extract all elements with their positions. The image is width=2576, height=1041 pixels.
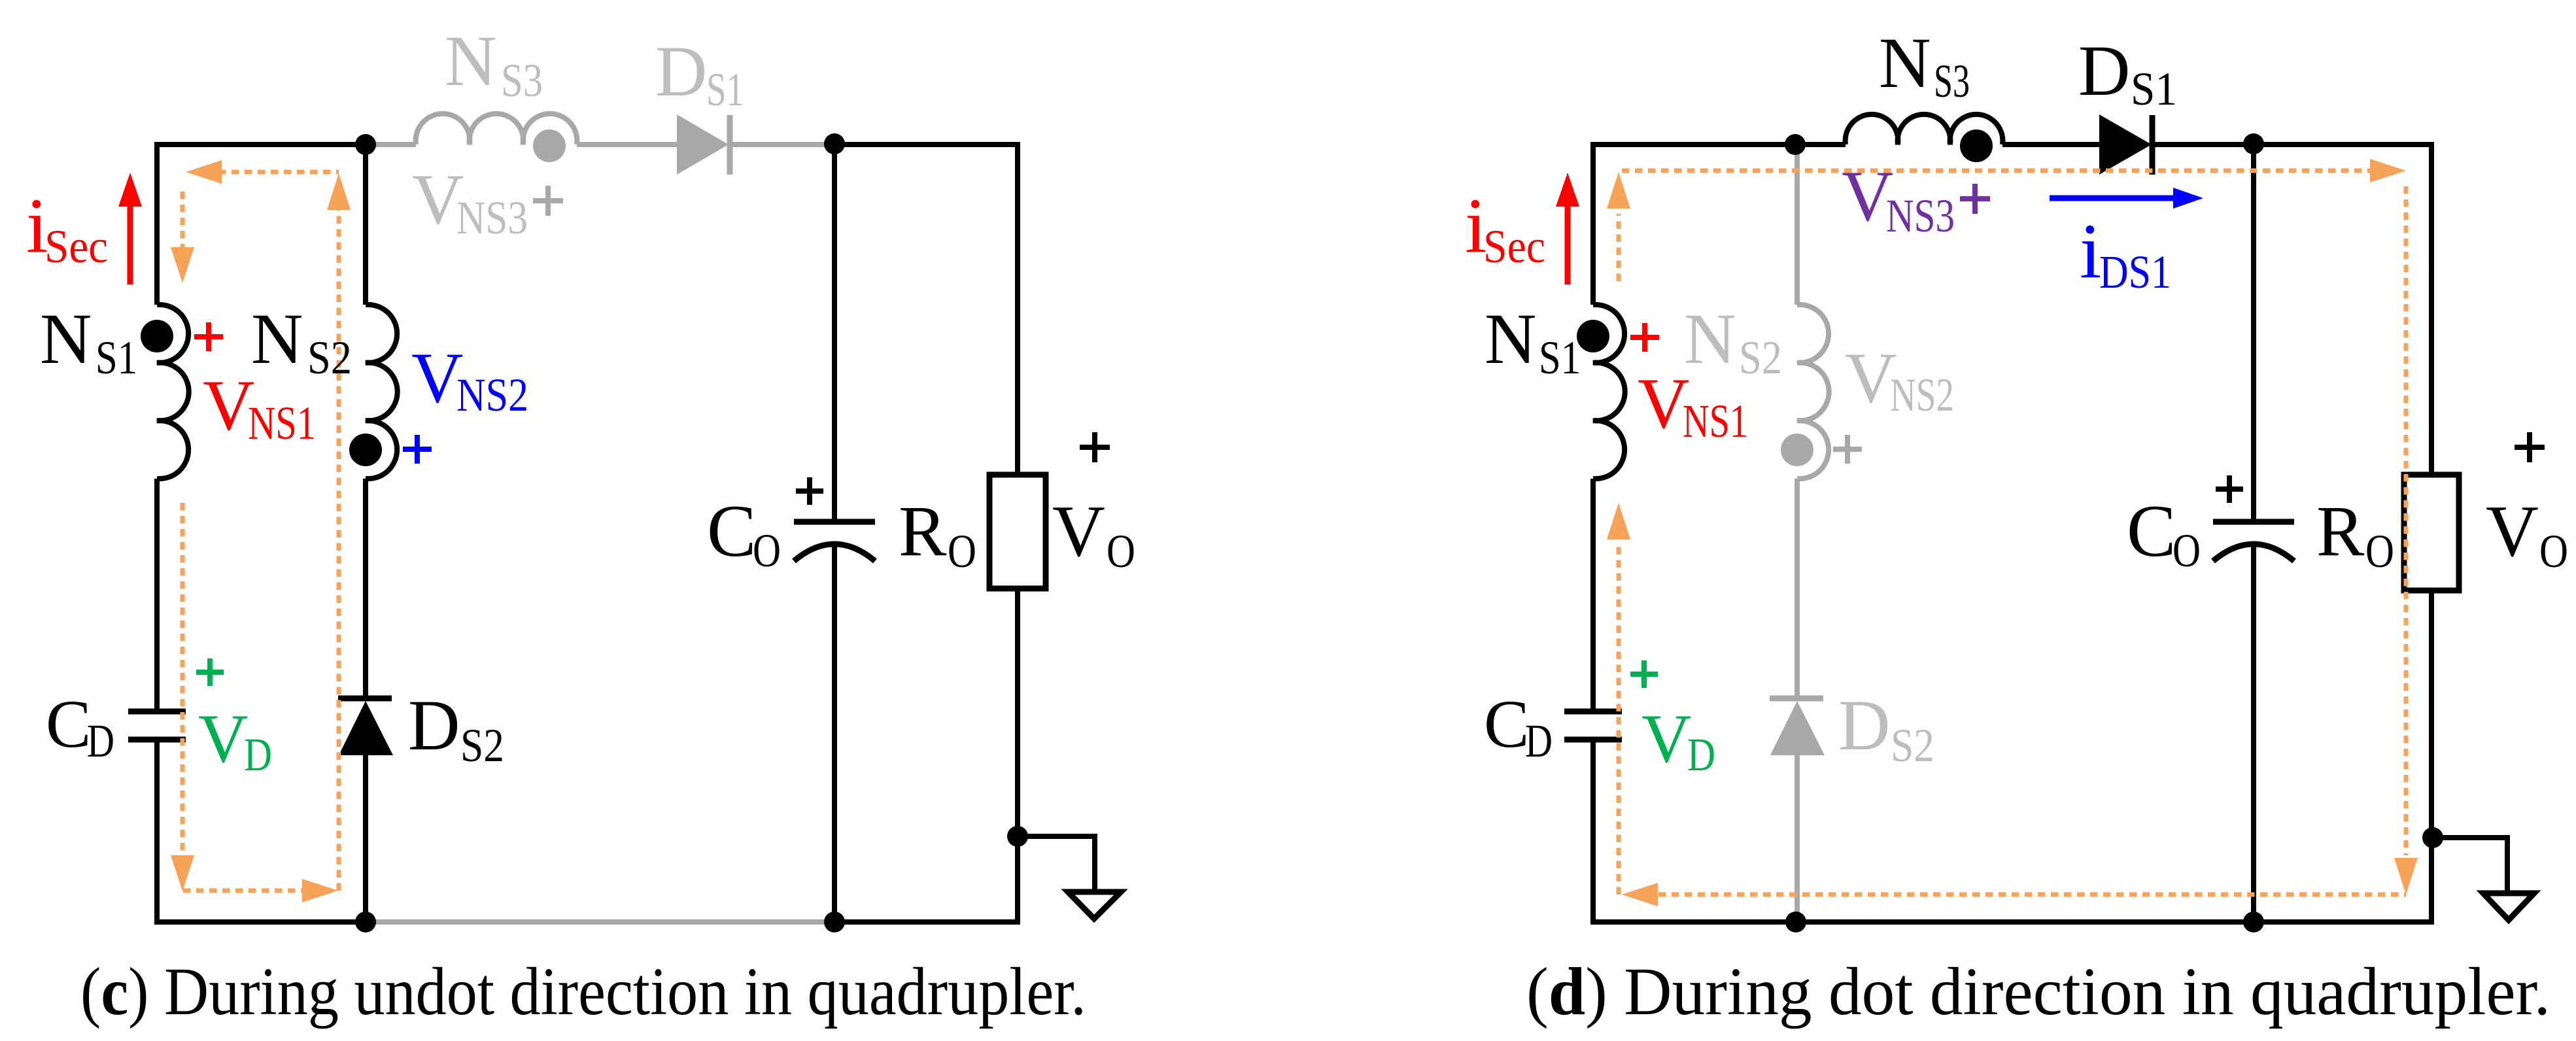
svg-text:N: N (1879, 23, 1931, 103)
svg-text:O: O (2365, 525, 2394, 577)
wire loop: left vertical upper (1617, 214, 1621, 281)
diode DS2 (338, 696, 392, 702)
wire (gray): NS3 to DS1 (577, 142, 677, 147)
svg-text:V: V (1845, 338, 1897, 418)
inductor NS2 (winding) (366, 305, 398, 479)
wire: CO branch lower (2251, 545, 2256, 922)
diode DS1 (gray) (677, 114, 729, 175)
svg-text:V: V (203, 366, 254, 445)
wire (gray): bottom between NS2 node and CO node (366, 919, 834, 925)
svg-text:D: D (2078, 31, 2130, 111)
svg-text:S3: S3 (501, 54, 543, 107)
node: DS1 output (2243, 133, 2264, 154)
svg-text:D: D (87, 715, 114, 767)
dot: NS2 polarity (349, 434, 382, 466)
capacitor CO (polarized) (794, 519, 875, 525)
wire: left branch below CD + bottom-left wire (157, 740, 366, 922)
wire loop: bottom horizontal (183, 889, 302, 893)
arrow left (loop top left) (186, 160, 222, 184)
svg-text:S1: S1 (2131, 63, 2177, 115)
svg-text:D: D (1687, 728, 1715, 781)
svg-text:S2: S2 (1739, 332, 1782, 384)
node: NS2 top (1785, 134, 1806, 155)
plus gray (NS3) (533, 186, 563, 216)
arrow up (loop right top) (327, 173, 351, 210)
node: output top (824, 133, 845, 154)
arrow up (loop left upper) (1607, 172, 1630, 209)
dot: NS1 polarity (141, 320, 173, 352)
svg-text:D: D (1838, 685, 1890, 765)
node: bottom DS2 (1785, 912, 1806, 932)
svg-text:N: N (1684, 299, 1736, 379)
resistor RO (rect) (989, 475, 1046, 589)
svg-text:D: D (244, 728, 272, 781)
svg-text:D: D (1525, 715, 1553, 767)
plus (CO) (796, 477, 823, 505)
svg-text:O: O (753, 524, 781, 577)
wire: top-left corner to NS2 node (1593, 145, 1795, 305)
svg-text:V: V (1641, 700, 1692, 777)
arrow right (loop bottom) (302, 879, 338, 902)
wire loop: right vertical (2404, 186, 2409, 855)
svg-text:O: O (2539, 525, 2568, 577)
wire loop: top horizontal (1622, 169, 2372, 173)
svg-text:C: C (46, 687, 91, 762)
svg-text:DS1: DS1 (2099, 246, 2171, 298)
svg-text:D: D (655, 31, 707, 111)
wire (gray): DS2 anode to bottom node (1795, 755, 1800, 922)
arrow iSec (red) (128, 203, 133, 284)
wire loop: left vertical lower (1617, 544, 1621, 895)
plus purple (NS3) (1960, 184, 1990, 214)
wire (gray): NS2 branch top (1795, 145, 1800, 305)
svg-text:NS3: NS3 (1886, 190, 1955, 242)
arrow left (loop bottom) (1622, 883, 1658, 906)
plus blue (NS2) (403, 435, 432, 464)
svg-text:NS3: NS3 (456, 192, 528, 244)
dot: NS1 polarity (1577, 320, 1609, 352)
plus (VO) (2515, 432, 2545, 462)
arrow down (loop left lower) (171, 855, 194, 891)
node: bottom DS2 (355, 912, 376, 932)
inductor NS3 (winding) (1846, 114, 2003, 145)
svg-text:N: N (1485, 299, 1536, 379)
current loop (orange dashed), circuit (c) (182, 172, 339, 891)
node: bottom CO (2243, 912, 2264, 932)
svg-text:(d) During dot direction in qu: (d) During dot direction in quadrupler. (1526, 954, 2550, 1029)
svg-text:N: N (251, 299, 303, 379)
wire: ground stub (1018, 836, 1095, 891)
plus gray (NS2) (1833, 435, 1862, 464)
svg-text:O: O (2172, 524, 2201, 577)
plus red (NS1) (194, 322, 223, 351)
capacitor CO (polarized) (2213, 519, 2294, 525)
wire: NS2 branch to DS2 (363, 479, 368, 698)
svg-text:V: V (1638, 364, 1689, 443)
capacitor CD (1564, 711, 1622, 740)
wire: DS1 to output node and right corner (2155, 145, 2431, 475)
wire (gray): DS1 to output node (732, 142, 825, 147)
node: RO-ground (1007, 826, 1028, 847)
wire (gray, idle): NS2 node to NS3 (366, 142, 416, 147)
plus green (VD) (1630, 660, 1658, 688)
wire: below CD + bottom wire (1593, 740, 2434, 922)
wire: NS3 to DS1 (2002, 142, 2099, 147)
svg-text:C: C (707, 490, 756, 572)
svg-text:N: N (445, 21, 496, 101)
plus (VO) (1080, 432, 1110, 462)
svg-text:NS2: NS2 (456, 369, 528, 421)
plus red (NS1) (1630, 323, 1659, 352)
inductor NS1 (winding) (157, 305, 189, 479)
svg-text:S1: S1 (706, 63, 744, 116)
svg-text:R: R (899, 491, 947, 571)
arrow iSec (red) (1565, 203, 1571, 284)
plus (CO) (2216, 475, 2243, 503)
ground (2483, 893, 2534, 920)
svg-text:i: i (2080, 207, 2101, 294)
wire loop: right vertical (337, 210, 341, 891)
svg-text:S1: S1 (95, 332, 137, 384)
node: bottom CO (824, 912, 845, 932)
arrow down (loop right) (2394, 858, 2418, 895)
svg-text:D: D (408, 685, 460, 765)
arrow right (loop top) (2370, 159, 2406, 182)
node: RO-ground (2422, 827, 2443, 848)
arrow down (loop left upper) (171, 247, 194, 283)
resistor RO (rect) (2404, 475, 2459, 590)
wire: ground stub (2433, 838, 2507, 893)
inductor NS3 (gray winding) (416, 114, 577, 145)
wire: left branch top + top wire to NS2 node (157, 145, 366, 305)
wire: DS2 anode to bottom node (363, 755, 368, 922)
svg-text:S2: S2 (1891, 719, 1934, 772)
svg-text:S2: S2 (307, 332, 352, 384)
svg-text:O: O (948, 525, 976, 577)
dot: NS3 polarity (1960, 129, 1993, 162)
svg-text:(c) During undot direction in: (c) During undot direction in quadrupler… (80, 954, 1086, 1029)
svg-text:C: C (2127, 490, 2176, 572)
wire loop: left vertical lower (180, 503, 185, 855)
wire: left branch below NS1 to CD (1590, 479, 1596, 711)
dot: NS2 polarity (gray) (1781, 434, 1813, 466)
svg-text:NS1: NS1 (1683, 395, 1748, 447)
wire: NS2 branch top (363, 145, 368, 305)
dot: NS3 polarity (gray) (533, 129, 566, 162)
svg-text:Sec: Sec (1483, 220, 1545, 273)
svg-text:S1: S1 (1539, 332, 1581, 384)
diode DS2 (gray) (1770, 696, 1823, 702)
svg-text:V: V (2486, 491, 2539, 572)
inductor NS2 (gray winding) (1797, 305, 1829, 479)
svg-text:NS1: NS1 (248, 397, 316, 449)
svg-text:N: N (40, 299, 92, 379)
wire: CO branch lower (832, 545, 837, 922)
capacitor CD (128, 711, 186, 740)
wire: CO branch upper (832, 145, 837, 522)
ground (1068, 892, 1121, 919)
svg-text:NS2: NS2 (1890, 369, 1954, 421)
wire: RO bottom to bottom wire (1015, 589, 1020, 922)
wire: output node to RO corner (834, 145, 1018, 475)
svg-text:Sec: Sec (44, 220, 108, 273)
svg-text:S2: S2 (460, 719, 504, 772)
svg-text:S3: S3 (1934, 55, 1970, 107)
inductor NS1 (winding) (1593, 305, 1625, 479)
current loop (orange dashed), circuit (d) (1619, 171, 2406, 895)
wire: NS2 node to NS3 (1795, 142, 1846, 147)
wire loop: left vertical upper (180, 192, 185, 247)
wire loop: bottom horizontal (1658, 893, 2406, 897)
node: NS2 top (355, 134, 376, 155)
svg-text:V: V (198, 700, 249, 777)
wire: CO branch upper (2251, 145, 2256, 522)
svg-text:V: V (411, 338, 463, 418)
svg-text:V: V (1052, 491, 1105, 572)
wire loop: top horizontal (218, 170, 339, 175)
arrow up (loop left lower) (1607, 503, 1630, 539)
wire: left branch below NS1 to CD (154, 479, 160, 711)
svg-text:R: R (2316, 491, 2365, 571)
arrow iDS1 (blue) (2050, 196, 2178, 201)
svg-text:C: C (1484, 687, 1529, 762)
svg-text:O: O (1107, 525, 1135, 577)
wire (gray): NS2 branch to DS2 (1795, 479, 1800, 698)
wire: RO bottom to bottom wire (2429, 590, 2434, 922)
wire: bottom between CO node and RO branch (834, 919, 1020, 925)
plus green (VD) (196, 658, 224, 686)
diode DS1 (2099, 114, 2152, 175)
